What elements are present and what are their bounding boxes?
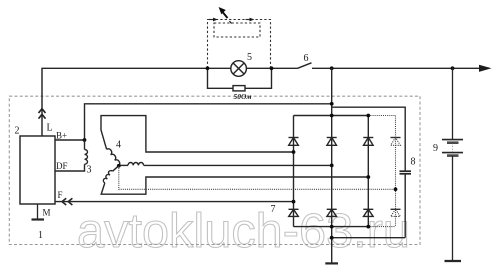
node B+ riser <box>330 102 334 106</box>
diode bottom 3 <box>363 209 373 216</box>
column phase 1 <box>293 116 295 227</box>
top bus <box>294 115 369 117</box>
svg-text:B+: B+ <box>56 131 67 141</box>
node phase1 tap <box>292 150 296 154</box>
diode bottom 2 <box>327 209 337 216</box>
F chevrons <box>62 198 72 205</box>
wire B+ bus to capacitor <box>332 107 406 171</box>
neutral dotted wire <box>119 166 396 189</box>
phase 1 loop wire <box>101 116 294 152</box>
node: lamp right junction <box>270 66 274 70</box>
diode bottom 1 <box>289 209 299 216</box>
node bottom bus col2 <box>330 225 334 229</box>
phase 1 coil <box>107 148 121 166</box>
svg-text:6: 6 <box>304 53 309 64</box>
bottom bus <box>294 226 369 228</box>
arrow on dashed link left <box>209 18 218 22</box>
wire B+ riser and bus to rectifier <box>85 104 332 140</box>
phase 3 wire <box>101 177 368 194</box>
wire main bus top <box>42 68 231 136</box>
rectifier 7 <box>294 68 369 263</box>
capacitor 8 <box>332 171 411 238</box>
bold arrow symbol <box>219 7 232 24</box>
wire capacitor to ground bus <box>332 237 406 239</box>
arrow to loads <box>479 65 492 72</box>
wire switch to battery node <box>312 67 480 69</box>
wire B+ terminal <box>55 139 85 141</box>
svg-text:L: L <box>47 123 53 134</box>
diode bottom extra (dotted) <box>391 209 401 216</box>
phase 3 coil <box>113 166 119 171</box>
svg-text:9: 9 <box>433 143 438 154</box>
svg-text:F: F <box>58 190 63 200</box>
node neutral tap <box>394 187 398 191</box>
svg-text:5: 5 <box>247 52 252 63</box>
arrow on dashed link right <box>246 18 255 22</box>
diode top 2 <box>327 138 337 146</box>
wire lamp to switch <box>246 67 297 69</box>
wire battery bottom <box>452 156 454 261</box>
stator winding 4 <box>101 116 368 195</box>
wire F phase sense <box>55 201 294 203</box>
node F tap <box>292 200 296 204</box>
svg-text:1: 1 <box>38 230 43 241</box>
node bus top col2 <box>330 114 334 118</box>
svg-text:4: 4 <box>116 140 121 151</box>
column phase 2 / B+ riser to ground <box>331 68 333 263</box>
svg-text:7: 7 <box>271 204 276 215</box>
node phase2 tap <box>330 164 334 168</box>
alternator housing dashed box 1 <box>9 96 420 244</box>
ground rectifier center <box>325 262 338 264</box>
svg-text:8: 8 <box>411 157 416 168</box>
phase 2 wire <box>119 164 128 166</box>
node: lamp left junction <box>206 66 210 70</box>
node: B+ bus junction <box>330 66 334 70</box>
ground battery <box>445 260 462 262</box>
svg-text:DF: DF <box>56 161 68 171</box>
indicator dashed box (inner) <box>214 23 260 37</box>
ground M of regulator <box>32 204 45 220</box>
battery 9 <box>442 68 463 261</box>
svg-text:50Ом: 50Ом <box>233 92 251 101</box>
node star point <box>117 164 121 168</box>
resistor branch wires <box>208 68 272 88</box>
column extra dotted <box>395 116 397 227</box>
warning lamp 5 <box>231 61 247 77</box>
wire battery top <box>452 68 454 139</box>
svg-text:M: M <box>43 208 51 218</box>
L output chevrons <box>39 109 46 119</box>
svg-text:3: 3 <box>87 165 92 176</box>
diode top 3 <box>363 138 373 146</box>
phase 2 coil <box>128 163 144 166</box>
node phase3 tap <box>366 175 370 179</box>
node bottom bus col3 <box>366 225 370 229</box>
node B+ junction <box>83 138 87 142</box>
dotted buses of extra diode leg <box>368 116 395 227</box>
node: battery junction <box>451 66 455 70</box>
column phase 3 <box>367 116 369 227</box>
switch 6 <box>298 63 312 69</box>
svg-text:2: 2 <box>15 126 20 137</box>
indicator dashed box (outer) <box>208 20 271 69</box>
diode top extra (dotted) <box>391 138 401 146</box>
svg-text:avtokluch-63.ru: avtokluch-63.ru <box>77 205 410 258</box>
node bus top col3 <box>366 114 370 118</box>
node cap/ground junction <box>330 236 334 240</box>
resistor 50 Ohm <box>233 86 245 91</box>
voltage regulator 2 <box>20 136 55 204</box>
diode top 1 <box>289 138 299 146</box>
field winding 3 <box>55 140 88 171</box>
